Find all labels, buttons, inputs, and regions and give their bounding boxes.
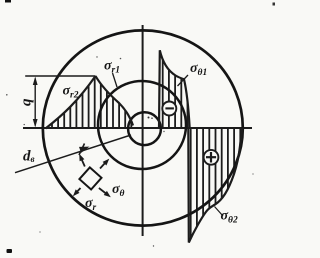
- q dimension arrow: [33, 77, 38, 128]
- sigma_r2 curve: [46, 76, 96, 129]
- svg-text:σθ: σθ: [112, 182, 125, 199]
- stress element square: [79, 167, 101, 189]
- scan artifact bottom-left: [7, 249, 13, 253]
- small circle (bore): [128, 112, 161, 145]
- element arrows: [73, 154, 111, 197]
- sigma_theta1 outline: [159, 50, 190, 128]
- svg-text:σr2: σr2: [63, 84, 79, 101]
- arrow up-right (sigma_r): [100, 163, 106, 169]
- svg-text:σθ2: σθ2: [221, 209, 238, 226]
- svg-text:q: q: [19, 98, 35, 106]
- vertical centerline: [142, 25, 144, 236]
- plus sign circle: [204, 150, 219, 165]
- minus sign circle: [162, 102, 176, 116]
- d_B diameter line: [15, 135, 131, 173]
- scan artifact top-right: [273, 3, 276, 6]
- horizontal centerline: [23, 127, 252, 129]
- speckle dots in bore: [148, 117, 150, 119]
- label sigma_theta2 + leader: [215, 207, 224, 217]
- hatch sigma_theta2 region: [191, 127, 241, 245]
- arrow up (sigma_theta): [81, 157, 85, 167]
- arrow down-left (sigma_r): [77, 188, 81, 192]
- svg-text:σr1: σr1: [104, 59, 120, 76]
- svg-text:dв: dв: [23, 149, 35, 165]
- paper speckles: [6, 56, 254, 246]
- middle circle (joint diameter): [98, 81, 186, 169]
- top reference line at peak level: [25, 75, 95, 77]
- svg-text:σθ1: σθ1: [190, 61, 207, 78]
- hatch sigma_theta1 region: [163, 45, 188, 129]
- sigma_r1 curve: [96, 76, 134, 126]
- scan artifact top-left: [5, 0, 11, 3]
- svg-text:σr: σr: [85, 196, 97, 213]
- arrowhead on d_B line: [79, 147, 90, 153]
- outer circle (hub OD): [43, 30, 243, 225]
- hatch sigma_r2 / sigma_r1 region: [52, 60, 131, 129]
- arrow down-right (sigma_theta): [99, 188, 106, 194]
- sigma_theta2 outline: [188, 128, 242, 243]
